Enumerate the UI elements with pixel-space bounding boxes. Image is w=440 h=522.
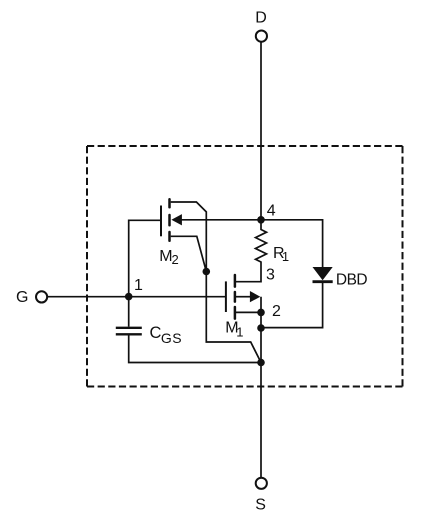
svg-text:1: 1 [134, 277, 143, 294]
svg-text:4: 4 [267, 203, 276, 220]
svg-text:GS: GS [161, 330, 182, 346]
svg-text:S: S [255, 496, 266, 513]
svg-text:G: G [16, 289, 28, 306]
svg-text:2: 2 [272, 303, 281, 320]
svg-text:C: C [150, 324, 162, 342]
svg-text:2: 2 [172, 252, 179, 267]
svg-text:1: 1 [282, 249, 289, 264]
svg-text:1: 1 [236, 324, 243, 339]
svg-text:D: D [255, 10, 267, 27]
svg-text:DBD: DBD [336, 271, 368, 288]
svg-text:3: 3 [266, 267, 275, 284]
